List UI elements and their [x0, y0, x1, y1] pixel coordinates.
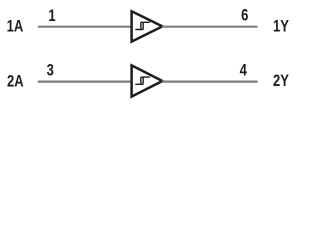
svg-text:2A: 2A [7, 73, 24, 91]
svg-text:4: 4 [240, 62, 248, 80]
svg-text:1: 1 [48, 7, 55, 25]
hysteresis symbol U1a [135, 22, 150, 29]
wire U1b output to 2Y [162, 80, 258, 82]
wire input 2A to U1b [38, 80, 131, 82]
wire input 1A to U1a [38, 26, 131, 28]
svg-text:1Y: 1Y [273, 18, 289, 36]
svg-text:6: 6 [241, 7, 248, 25]
buffer U1b triangle [132, 65, 163, 96]
svg-text:1A: 1A [7, 18, 24, 36]
svg-text:2Y: 2Y [273, 73, 289, 91]
svg-text:3: 3 [47, 62, 54, 80]
wire U1a output to 1Y [162, 26, 258, 28]
buffer U1a triangle [132, 11, 163, 41]
hysteresis symbol U1b [135, 77, 150, 84]
